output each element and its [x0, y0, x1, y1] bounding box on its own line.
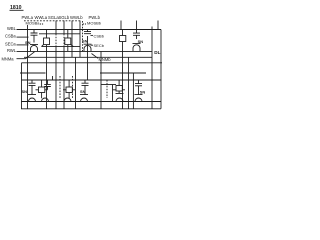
svg-text:SN: SN: [25, 40, 31, 45]
label SECb: [94, 43, 105, 48]
svg-text:WBL: WBL: [7, 26, 17, 31]
transistor box a1: [44, 38, 50, 45]
svg-text:PWLa: PWLa: [22, 15, 34, 20]
leader CSBb: [91, 34, 94, 36]
capacitor CSBa: [31, 30, 38, 43]
wire tick right edge: [157, 21, 159, 30]
leader RWL / wire RWL horizontal: [17, 50, 153, 52]
svg-text:SGLb: SGLb: [59, 15, 70, 20]
bit line DL x152: [151, 27, 153, 109]
leader SECb: [91, 44, 94, 46]
wire H1b inside cell a: [39, 33, 80, 35]
vertical wire x128.5: [128, 57, 130, 109]
wire row line H3: [24, 56, 152, 58]
transistor bottom 2: [80, 93, 88, 102]
tail of box a2: [71, 45, 74, 47]
leader CSBa: [17, 36, 29, 38]
wire tick SGLa top: [55, 21, 57, 30]
stub wire H y84.5 pair2: [101, 84, 116, 86]
svg-text:PWLb: PWLb: [89, 15, 101, 20]
transistor box bottom 2: [66, 87, 72, 93]
stub wires box bottom 1: [36, 80, 48, 98]
node SN bottom 4: [140, 89, 146, 94]
wire row line H7: [21, 101, 161, 103]
vertical wire left edge x21.5: [21, 63, 23, 109]
vertical wire x72: [71, 30, 73, 58]
vertical pair2 left: [112, 85, 114, 102]
label WWLa: [35, 15, 48, 20]
vertical wire x56: [55, 30, 57, 109]
capacitor on column between boxes: [44, 80, 51, 90]
label SGLb: [59, 15, 70, 20]
tick above H6: [52, 76, 54, 80]
wire row line H4: [22, 62, 163, 64]
capacitor bottom cell 4: [135, 80, 142, 93]
label MNMb: [99, 57, 112, 62]
transistor bottom 4: [135, 93, 143, 102]
wire tick WWLb top: [71, 21, 73, 30]
tail of box a1: [42, 45, 44, 47]
vertical wire x75.5 lower: [75, 57, 77, 109]
label SECa: [5, 41, 16, 46]
vertical wire x46.5: [46, 30, 48, 109]
cell label MOSBa: [26, 21, 41, 26]
svg-text:SN: SN: [140, 89, 146, 94]
node SN bottom 1: [22, 89, 28, 94]
stub wires box bottom 2: [63, 80, 75, 98]
label WWLb: [70, 15, 83, 20]
figure number 1810: [10, 5, 22, 11]
stub wires box bottom 3: [113, 89, 125, 91]
dashed segment x56: [55, 34, 57, 47]
wire row line H8 (bottom): [21, 108, 161, 110]
svg-text:SECb: SECb: [94, 43, 105, 48]
capacitor bottom cell 2: [82, 80, 89, 93]
leader SECa: [17, 44, 29, 46]
capacitor cell c: [133, 30, 140, 40]
label RWL: [7, 48, 17, 53]
transistor mos c: [133, 43, 141, 51]
label WBL: [7, 26, 17, 31]
transistor bump bottom box2: [64, 98, 71, 101]
leader MNMb diagonal: [92, 54, 99, 59]
transistor box c1: [120, 36, 126, 42]
label CSBa: [5, 34, 16, 39]
right edge vertical x161: [160, 30, 162, 109]
svg-text:SN: SN: [82, 38, 88, 43]
cell label MOSBb: [87, 21, 102, 26]
svg-text:DL: DL: [154, 50, 160, 55]
dashed boundary x72.5: [72, 76, 74, 98]
node SN top a: [25, 40, 31, 45]
wire tick right cell 2: [136, 21, 138, 30]
transistor bottom 3: [116, 91, 124, 102]
vertical wire x122.5: [122, 30, 124, 109]
dashed boundary x60: [59, 76, 61, 98]
svg-text:MNMa: MNMa: [2, 56, 15, 61]
leader of MOSBb: [83, 23, 86, 25]
transistor bump bottom box1: [42, 98, 49, 101]
dashed boundary x107: [106, 80, 108, 98]
transistor bottom 1: [28, 93, 36, 102]
vertical wire x87.5: [87, 36, 89, 80]
vertical wire left x27.5: [27, 25, 29, 109]
svg-text:SN: SN: [22, 89, 28, 94]
svg-text:CSBa: CSBa: [5, 34, 16, 39]
svg-text:CSBb: CSBb: [94, 33, 105, 38]
vertical to box3 top: [118, 80, 120, 86]
node SN top c: [138, 39, 144, 44]
svg-text:WWLa: WWLa: [35, 15, 48, 20]
vertical wire x64: [63, 30, 65, 109]
dashed segment x64: [63, 34, 65, 47]
label CSBb: [94, 33, 105, 38]
transistor mos b: [84, 44, 92, 51]
node SN bottom 2: [80, 89, 86, 94]
label PWLb: [89, 15, 101, 20]
wire tick PWLb top: [79, 21, 81, 30]
vertical wire x80: [79, 30, 81, 58]
node SN top b: [82, 38, 88, 43]
wire row line H6: [22, 79, 162, 81]
transistor SECa (mos a): [30, 44, 38, 51]
wire H1c inside cell a: [42, 46, 81, 48]
dashed top edge of cell MOSBa: [24, 20, 80, 22]
vertical wire x133.4: [132, 73, 134, 109]
label SGLa: [48, 15, 59, 20]
leader WBL / wire WBL horizontal: [17, 29, 162, 31]
transistor box a2: [65, 38, 71, 45]
svg-text:MOSBa: MOSBa: [26, 21, 41, 26]
capacitor bottom cell 1: [29, 80, 36, 93]
label PWLa: [22, 15, 34, 20]
wire segment H5b: [100, 72, 146, 74]
transistor box bottom 1: [39, 87, 45, 93]
wire tick SGLb top: [63, 21, 65, 30]
label MNMa: [2, 56, 15, 61]
wire segment H5a: [20, 72, 46, 74]
capacitor cell b: [84, 30, 91, 34]
svg-text:SECa: SECa: [5, 41, 16, 46]
label DL: [154, 50, 160, 55]
wire tick right cell 1: [120, 21, 122, 30]
vertical wire x101: [100, 51, 102, 108]
leader of MOSBa: [40, 23, 44, 25]
svg-text:RWL: RWL: [7, 48, 17, 53]
vertical through box a2: [67, 30, 69, 52]
svg-text:MOSBb: MOSBb: [87, 21, 102, 26]
leader MNMa diagonal: [17, 52, 35, 59]
underline of figure number: [10, 9, 24, 11]
transistor box bottom 3: [116, 86, 122, 92]
svg-text:WWLb: WWLb: [70, 15, 83, 20]
dashed left edge of cell MOSBb: [82, 21, 84, 51]
